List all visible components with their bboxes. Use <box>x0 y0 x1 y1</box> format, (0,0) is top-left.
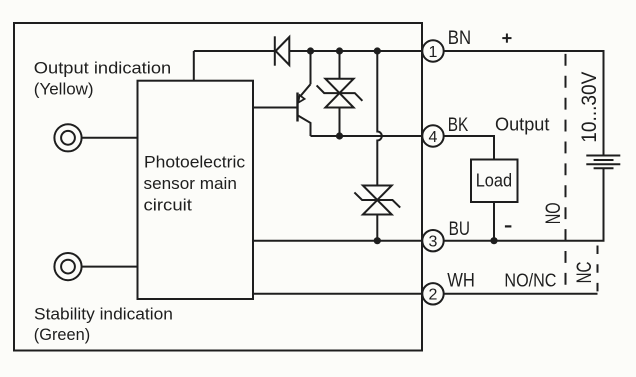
svg-text:3: 3 <box>429 234 438 251</box>
wire: BU rail from sensor box to terminal 3 <box>253 240 426 242</box>
label minus <box>505 225 512 227</box>
node: zener bottom junction on BU rail <box>374 237 381 244</box>
svg-text:(Green): (Green) <box>34 325 90 344</box>
terminal 3 circle <box>422 230 443 251</box>
transistor Q1 collector <box>298 115 311 136</box>
wire: sensor box top riser <box>193 51 195 81</box>
wire: BK rail to load <box>444 136 494 160</box>
load box <box>471 160 518 203</box>
svg-text:Output indication: Output indication <box>34 59 171 77</box>
label: Stability indication (Green) <box>34 306 173 344</box>
zener D3 bottom lead <box>376 215 378 241</box>
svg-text:BU: BU <box>449 219 470 240</box>
svg-text:1: 1 <box>429 44 438 61</box>
wire: BN rail to battery <box>444 51 604 156</box>
terminal 4 circle <box>422 125 443 146</box>
svg-text:4: 4 <box>429 129 438 146</box>
zener D3 lower triangle <box>363 200 392 215</box>
diode D1 triangle <box>276 37 290 65</box>
indicator LED (green) double circle <box>54 253 81 280</box>
transistor Q1 base wire <box>253 107 297 109</box>
node: emitter junction on top rail <box>307 47 314 54</box>
terminal 1 circle <box>422 40 443 61</box>
TVS D2 lower triangle <box>325 93 353 107</box>
transistor Q1 emitter with arrow <box>298 84 311 102</box>
TVS D2 top lead <box>339 51 341 79</box>
svg-text:sensor main: sensor main <box>144 175 237 193</box>
dashed NO link <box>565 54 567 294</box>
svg-text:circuit: circuit <box>144 197 193 215</box>
label + <box>502 34 511 43</box>
TVS D2 bottom lead <box>339 108 341 137</box>
svg-text:BN: BN <box>448 28 471 49</box>
indicator LED (yellow) double circle <box>54 124 81 151</box>
battery B1 plates <box>586 156 620 169</box>
zener D3 bar with hooks <box>354 192 400 207</box>
wire: collector to terminal 4 (BK rail) <box>311 135 427 137</box>
svg-text:2: 2 <box>429 287 438 304</box>
sensor main circuit box U1 <box>138 81 254 299</box>
node: zener top junction on top rail <box>374 47 381 54</box>
transistor Q1 base bar <box>296 93 298 122</box>
TVS D2 zener bar with hooks <box>317 85 363 100</box>
svg-text:NO/NC: NO/NC <box>504 270 556 291</box>
wire: top supply rail to diode <box>194 50 275 52</box>
svg-text:10...30V: 10...30V <box>578 72 601 143</box>
terminal 2 circle <box>422 283 443 304</box>
svg-text:(Yellow): (Yellow) <box>34 79 94 98</box>
svg-text:BK: BK <box>448 115 469 136</box>
svg-text:NO: NO <box>542 202 565 224</box>
label: Output indication (Yellow) <box>34 59 171 98</box>
wire: diode to terminal 1 <box>289 50 426 52</box>
wire: emitter to top rail <box>310 51 312 84</box>
outer enclosure box <box>14 23 422 351</box>
node: TVS bottom junction on BK rail <box>336 132 343 139</box>
zener D3 top lead with hop over BK rail <box>377 51 382 186</box>
node: TVS top junction on top rail <box>336 47 343 54</box>
zener D3 upper triangle <box>363 186 392 201</box>
TVS D2 upper triangle <box>325 79 353 93</box>
wire: yellow indicator to sensor box <box>82 137 138 139</box>
dashed NC link <box>597 246 599 294</box>
label: Photoelectric sensor main circuit <box>144 154 246 215</box>
diode D1 cathode bar <box>274 36 276 65</box>
svg-text:Load: Load <box>476 169 512 190</box>
wire: green indicator to sensor box <box>82 266 138 268</box>
svg-text:WH: WH <box>447 271 475 292</box>
svg-text:Photoelectric: Photoelectric <box>144 154 245 172</box>
svg-text:NC: NC <box>573 262 596 284</box>
wire: WH rail extension <box>444 293 598 295</box>
wire: load to BU rail <box>493 202 495 241</box>
svg-text:Output: Output <box>495 113 549 134</box>
svg-text:Stability indication: Stability indication <box>34 306 173 324</box>
wire: WH rail from sensor box to terminal 2 <box>253 293 426 295</box>
wire: battery to BU rail <box>444 168 604 240</box>
node: load junction on BU rail <box>490 237 497 244</box>
